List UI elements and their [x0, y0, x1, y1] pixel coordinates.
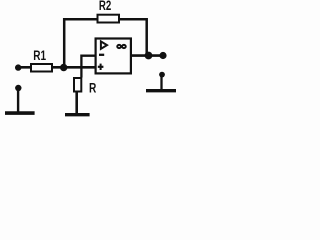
svg-text:R1: R1 — [33, 48, 46, 63]
op-amp inverting input symbol (minus) — [99, 54, 104, 56]
resistor R1 — [31, 64, 52, 72]
resistor R2 — [98, 15, 120, 23]
wire: input ground stem — [17, 88, 19, 113]
wire: feedback loop from node A up and across the top — [64, 19, 147, 67]
op-amp U1 (DIN amplifier box) — [96, 39, 131, 74]
op-amp non-inverting input symbol (plus) — [98, 64, 104, 70]
svg-text:R2: R2 — [99, 0, 111, 13]
wire: op-amp output — [131, 54, 163, 57]
wire: output ground stem — [160, 75, 162, 90]
ground bar at output — [146, 89, 176, 92]
wire: inverting input pin left and down to resistor R — [81, 56, 95, 78]
wire: input line to op-amp non-inverting input — [16, 66, 96, 69]
wire: resistor R to ground — [75, 92, 78, 115]
label R — [89, 80, 96, 95]
node A junction dot (feedback joins input wire) — [60, 64, 67, 71]
output ground terminal dot — [159, 72, 165, 78]
label R2 — [99, 0, 111, 13]
ground bar below R — [65, 113, 90, 116]
op-amp triangle symbol — [101, 41, 107, 48]
input ground terminal dot — [15, 85, 21, 91]
junction dot: feedback meets output — [145, 52, 153, 60]
label R1 — [33, 48, 46, 63]
ground bar at input — [5, 111, 35, 115]
output terminal dot — [159, 52, 166, 59]
op-amp infinite-gain symbol — [117, 45, 126, 48]
input terminal dot — [15, 64, 21, 70]
resistor R — [74, 78, 81, 92]
svg-text:R: R — [89, 80, 96, 95]
